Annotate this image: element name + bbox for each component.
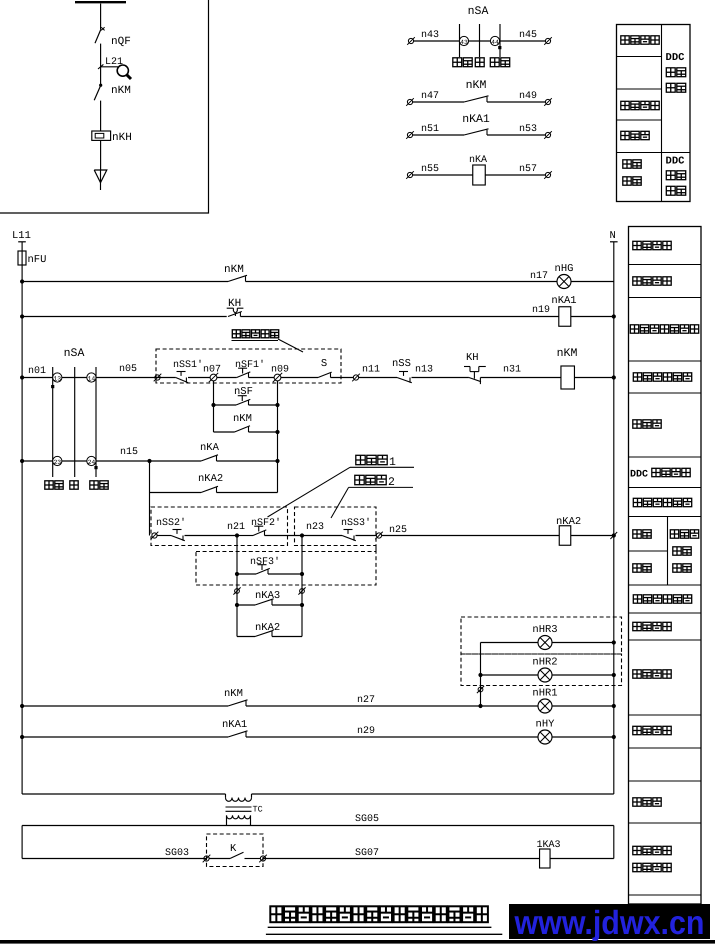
svg-text:TC: TC	[253, 805, 263, 815]
svg-text:n21: n21	[227, 522, 245, 533]
svg-text:nKA3: nKA3	[255, 590, 280, 602]
svg-text:S: S	[321, 358, 327, 370]
svg-text:K: K	[230, 843, 237, 855]
pushbutton nSF (NO)	[211, 386, 279, 407]
transformer TC	[226, 794, 263, 826]
wire 1KA3 to right link	[550, 858, 614, 860]
wire n13	[412, 365, 469, 378]
svg-text:nSS2': nSS2'	[156, 517, 186, 529]
terminal at field-box exit	[352, 374, 360, 382]
motor feeder arrow	[94, 170, 107, 190]
svg-text:nSS1': nSS1'	[173, 359, 203, 371]
svg-text:13: 13	[53, 376, 61, 383]
wire feeder drop	[100, 4, 102, 29]
svg-text:nKA1: nKA1	[462, 113, 490, 126]
nSA position label jianxiu	[453, 58, 472, 67]
wire nSA to n45	[500, 40, 545, 42]
breaker nQF	[95, 27, 131, 48]
node n01	[20, 366, 46, 380]
wire to load arrow	[100, 140, 102, 170]
sidebar text control-power	[633, 241, 671, 249]
terminal n51	[406, 124, 439, 139]
svg-text:23: 23	[53, 459, 61, 466]
table text DDC return signal	[666, 52, 686, 92]
svg-text:nKA1: nKA1	[222, 719, 247, 731]
sidebar text transformer	[633, 798, 661, 806]
fuse nFU	[18, 242, 46, 266]
wire below nQF	[100, 44, 102, 67]
contact nKA2 (lower)	[237, 622, 302, 637]
relay nKA row label	[469, 155, 487, 166]
sidebar text start-relay	[633, 863, 671, 871]
nSA contact 23	[20, 456, 62, 466]
svg-text:nKM: nKM	[466, 79, 487, 92]
svg-text:n25: n25	[389, 525, 407, 536]
svg-text:1KA3: 1KA3	[537, 840, 561, 851]
DDC signal table frame	[617, 25, 691, 202]
neutral bus N label	[610, 230, 618, 242]
svg-text:nKM: nKM	[233, 413, 252, 425]
svg-text:n51: n51	[421, 124, 439, 135]
wire lamp branch vertical	[480, 643, 482, 707]
title underline 2	[266, 933, 502, 935]
wire row1 to N bus	[571, 281, 614, 283]
nSA contact 14	[87, 373, 96, 383]
table text DDC output signal	[666, 156, 686, 196]
terminal row n25	[375, 532, 383, 540]
terminal K left	[203, 855, 211, 863]
svg-text:14: 14	[88, 376, 96, 383]
selector switch nSA (panel) label	[64, 347, 85, 360]
svg-text:nSS: nSS	[392, 358, 411, 370]
terminal marker n23 (box exit)	[298, 587, 305, 594]
svg-text:DDC: DDC	[666, 52, 686, 64]
nSA marker (position jianxiu, row 13)	[51, 385, 54, 388]
svg-text:n23: n23	[306, 522, 324, 533]
pushbutton nSS (NC stop)	[392, 358, 412, 383]
field box label with leader	[232, 330, 304, 352]
wire n07-nSF1'	[217, 377, 237, 379]
button box 1 label with leader	[268, 455, 415, 517]
sidebar text panel-manual-control	[633, 373, 691, 381]
sidebar text fault-signal	[633, 846, 671, 854]
svg-text:nKA1: nKA1	[551, 295, 576, 307]
svg-text:nKA2: nKA2	[198, 473, 223, 485]
sidebar text control	[673, 564, 691, 572]
svg-text:n13: n13	[415, 365, 433, 376]
wire S out of box	[331, 377, 354, 379]
svg-text:n01: n01	[28, 366, 46, 377]
signal-hold dashed box lower	[461, 654, 622, 686]
wire n15 branch down	[149, 461, 151, 536]
wire bus2 (SG05)	[22, 814, 614, 826]
wire branch n07 down	[213, 381, 215, 405]
table text work-status	[621, 36, 659, 44]
wire n25	[382, 525, 560, 536]
wire branch n09 down	[277, 381, 279, 493]
contact nKA2 (upper)	[150, 473, 278, 493]
thermal relay nKH	[92, 131, 132, 144]
svg-text:n55: n55	[421, 164, 439, 175]
svg-text:KH: KH	[466, 352, 479, 364]
svg-text:nKH: nKH	[112, 132, 132, 144]
table text ext-port	[623, 160, 641, 185]
svg-text:DDC: DDC	[630, 470, 648, 481]
selector nSA position lines	[460, 24, 501, 57]
terminal n49	[519, 91, 552, 106]
title underline 1	[268, 926, 492, 928]
svg-text:nKM: nKM	[224, 264, 244, 276]
node n07	[188, 365, 221, 383]
svg-text:n57: n57	[519, 164, 537, 175]
aux contact nKA1	[413, 129, 545, 135]
sidebar text self-hold	[633, 420, 661, 428]
svg-text:n49: n49	[519, 91, 537, 102]
wire coil nKA2 to N bus	[571, 532, 617, 539]
wire bus1 right	[252, 793, 614, 795]
sidebar text run-indication	[633, 670, 671, 678]
pushbutton nSS2' (NC)	[156, 517, 186, 541]
lamp nHG	[555, 263, 574, 289]
contact nKM (stop indication row)	[20, 264, 247, 284]
contact nKA (DDC auto)	[150, 442, 280, 463]
node L21 tap	[98, 57, 123, 69]
nSA marker (position gongzuo, row 24)	[94, 466, 97, 469]
field pushbutton box (dashed)	[156, 349, 341, 383]
wire branch n23 down	[301, 536, 303, 637]
svg-text:nSF1': nSF1'	[235, 359, 265, 371]
lamp nHR2	[478, 657, 616, 683]
nSA contact 44	[490, 36, 499, 46]
pushbutton nSF3' (NO)	[235, 556, 304, 576]
wire n01 to nSA	[22, 377, 53, 379]
svg-text:KH: KH	[228, 298, 241, 310]
right bus2-bus3 link	[613, 826, 615, 859]
ammeter probe (magnifier symbol)	[117, 65, 131, 79]
wire bus3 SG07	[263, 848, 540, 859]
sidebar text on-site	[673, 547, 691, 555]
wire n31	[480, 365, 561, 378]
aux contact nKM row label	[466, 79, 487, 92]
bottom border bar	[0, 940, 715, 944]
svg-text:nKA: nKA	[469, 155, 487, 166]
svg-text:nSA: nSA	[468, 5, 489, 18]
nSA position label gongzuo	[490, 58, 509, 67]
svg-text:nKM: nKM	[557, 347, 578, 360]
svg-text:N: N	[610, 230, 616, 242]
svg-text:n07: n07	[203, 365, 221, 376]
wire branch n07 down 2	[213, 405, 215, 432]
terminal n57	[519, 164, 552, 179]
wire row1 to lamp	[246, 271, 558, 282]
svg-text:nKA2: nKA2	[556, 516, 581, 528]
sidebar text fault-indication	[633, 726, 671, 734]
wire n27	[246, 695, 538, 708]
terminal row nSS2'	[151, 532, 159, 540]
svg-text:nFU: nFU	[28, 254, 47, 266]
svg-text:n53: n53	[519, 124, 537, 135]
svg-text:n47: n47	[421, 91, 439, 102]
nSA position labels (ladder)	[45, 481, 108, 489]
node n15 junction	[147, 459, 151, 463]
relay coil nKA	[413, 165, 545, 185]
wire bus3 SG03	[22, 848, 206, 859]
svg-text:nSS3': nSS3'	[341, 517, 371, 529]
button box 2 label with leader	[331, 475, 413, 518]
sidebar text door-out	[633, 564, 651, 572]
svg-text:n27: n27	[357, 695, 375, 706]
button box 1 (dashed)	[151, 507, 288, 546]
contactor contact nKM (one-line)	[94, 67, 131, 100]
svg-text:n11: n11	[362, 365, 380, 376]
table text overload	[621, 131, 649, 139]
svg-text:n17: n17	[530, 271, 548, 282]
lamp nHR1	[532, 688, 616, 714]
signal-hold dashed box upper	[461, 617, 622, 654]
sidebar text protect-zone	[670, 530, 698, 538]
wire 13-14	[62, 377, 87, 379]
wire below nKM	[100, 101, 102, 131]
wire branch n21 down	[236, 536, 238, 637]
wire bus1 left	[22, 793, 225, 795]
lamp nHY	[536, 719, 616, 745]
sidebar text DDC-auto-control	[630, 468, 690, 480]
svg-text:nHR3: nHR3	[532, 624, 557, 636]
terminal marker lamp branch	[477, 686, 484, 693]
svg-text:n43: n43	[421, 30, 439, 41]
phase bus L11 label	[12, 230, 31, 242]
wire row2 to N bus	[571, 314, 616, 318]
nSA contact 24	[87, 456, 96, 466]
wire n09-S	[281, 377, 318, 379]
wire n15	[96, 447, 150, 461]
node n09	[249, 365, 290, 383]
drawing title	[270, 906, 488, 922]
wire 43-44	[469, 40, 491, 42]
svg-text:nKM: nKM	[224, 688, 243, 700]
svg-text:nKA2: nKA2	[255, 622, 280, 634]
wire 23-24	[62, 460, 87, 462]
contactor coil nKM	[557, 347, 578, 389]
svg-text:SG03: SG03	[165, 848, 189, 859]
contact K	[209, 843, 261, 859]
selector nSA position lines (ladder)	[53, 367, 96, 477]
svg-text:SG05: SG05	[355, 814, 379, 825]
svg-text:nHY: nHY	[536, 719, 556, 731]
svg-text:nSA: nSA	[64, 347, 85, 360]
svg-text:n29: n29	[357, 726, 375, 737]
terminal n43	[407, 30, 439, 45]
sidebar text fault-start-signal	[633, 595, 691, 603]
svg-text:www.jdwx.cn: www.jdwx.cn	[514, 905, 705, 942]
wire n43 to nSA	[414, 40, 460, 42]
sidebar text door-in	[633, 530, 651, 538]
svg-text:nKA: nKA	[200, 442, 220, 454]
pushbutton nSS3' (NC)	[302, 517, 371, 541]
svg-text:nKM: nKM	[111, 85, 131, 97]
pushbutton nSF1' (NO)	[235, 359, 265, 378]
switch S	[318, 358, 332, 378]
sidebar text stop-indication	[633, 277, 671, 285]
nSA contact 43	[459, 36, 468, 46]
selector switch nSA (aux) label	[468, 5, 489, 18]
svg-text:L11: L11	[12, 230, 31, 242]
thermal contact KH (overload row)	[20, 298, 243, 319]
pushbutton nSF2' (NO)	[237, 517, 302, 536]
left bus2-bus3 link	[21, 826, 23, 859]
aux contact nKM	[413, 96, 545, 102]
relay coil nKA1	[551, 295, 576, 326]
terminal at field-box entry	[154, 374, 162, 382]
svg-text:24: 24	[88, 459, 96, 466]
svg-text:n45: n45	[519, 30, 537, 41]
nSA contact 13	[53, 373, 62, 383]
svg-text:nSF2': nSF2'	[251, 517, 281, 529]
enclosure top-left power one-line box	[0, 0, 209, 213]
svg-text:44: 44	[491, 39, 499, 46]
aux contact nKA1 row label	[462, 113, 490, 126]
svg-text:43: 43	[460, 39, 468, 46]
right bus N vertical	[613, 242, 615, 794]
lamp nHR3	[481, 624, 616, 650]
terminal K right	[259, 855, 267, 863]
pushbutton nSS1' (NC)	[173, 359, 203, 383]
thermal contact KH (main row)	[464, 352, 486, 384]
terminal n53	[519, 124, 552, 139]
sidebar text signal-hold	[633, 622, 671, 630]
watermark www.jdwx.cn	[509, 904, 710, 942]
node n21	[185, 522, 246, 538]
svg-text:nHR2: nHR2	[532, 657, 557, 669]
svg-text:n09: n09	[271, 365, 289, 376]
left bus L11 vertical	[21, 265, 23, 794]
contact nKA3	[235, 590, 304, 607]
svg-text:nHR1: nHR1	[532, 688, 557, 700]
nSA position label ting	[475, 58, 484, 67]
terminal n47	[406, 91, 439, 106]
contact box K (dashed)	[207, 834, 264, 867]
contact nKM (self-hold)	[214, 413, 280, 434]
svg-text:n15: n15	[120, 447, 138, 458]
svg-text:DDC: DDC	[666, 156, 686, 168]
busbar (power source)	[75, 1, 126, 3]
wire n11	[359, 365, 398, 378]
node n23	[300, 522, 324, 538]
sidebar text overload-signal-relay	[630, 325, 698, 333]
terminal n45	[519, 30, 552, 45]
svg-text:nSF: nSF	[234, 386, 253, 398]
svg-text:nHG: nHG	[555, 263, 574, 275]
svg-text:nQF: nQF	[111, 36, 131, 48]
nSA closed-position marker (top)	[498, 46, 501, 49]
contact nKM (run indication)	[20, 688, 248, 708]
button box 3 (dashed)	[196, 546, 376, 586]
terminal n55	[406, 164, 439, 179]
relay coil 1KA3	[537, 840, 561, 868]
wire n05	[96, 364, 176, 378]
wire nSS3' to terminal	[356, 535, 377, 537]
svg-text:n31: n31	[503, 365, 521, 376]
svg-text:SG07: SG07	[355, 848, 379, 859]
wire n29	[246, 726, 538, 737]
function table frame	[629, 227, 702, 905]
wire coil nKM to N bus	[575, 375, 616, 379]
wire row2 to coil	[240, 305, 558, 317]
table text run-signal	[621, 101, 659, 109]
svg-text:n19: n19	[532, 305, 550, 316]
svg-text:n05: n05	[119, 364, 137, 375]
relay coil nKA2	[556, 516, 581, 545]
svg-text:nSF3': nSF3'	[250, 556, 280, 568]
terminal marker n21 (box exit)	[233, 587, 240, 594]
sidebar text fault-signal-control	[633, 498, 691, 506]
contact nKA1 (fault indication)	[20, 719, 248, 739]
button box 2 (dashed)	[295, 507, 377, 546]
